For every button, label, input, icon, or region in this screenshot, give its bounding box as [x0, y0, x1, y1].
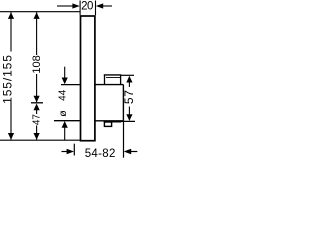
- node dia44 top extension tick: [61, 84, 80, 86]
- node extension line right of 20: [95, 1, 97, 16]
- button tab below handle: [104, 122, 111, 126]
- svg-text:54-82: 54-82: [85, 148, 116, 160]
- svg-text:ø: ø: [57, 110, 69, 117]
- handle disc right edge (visible band): [120, 75, 122, 85]
- dimension 155/155 line: [8, 12, 14, 140]
- dimension 57 line: [126, 76, 132, 121]
- svg-text:47: 47: [32, 114, 43, 126]
- dimension 47 line: [34, 104, 40, 140]
- svg-text:20: 20: [81, 1, 93, 13]
- node extension line left of 20: [79, 1, 81, 16]
- handle disc top edge: [104, 74, 122, 76]
- handle cylinder bottom edge: [96, 120, 124, 122]
- handle disc bottom edge: [104, 121, 122, 123]
- node 54-82 right extension line: [123, 122, 125, 158]
- handle cylinder top edge: [96, 84, 124, 86]
- svg-text:108: 108: [31, 55, 43, 73]
- handle disc left edge (visible band): [104, 75, 106, 85]
- dimension 54-82 right arrow: [124, 149, 138, 155]
- node 57 bottom extension line: [117, 120, 135, 122]
- node 57 top extension line: [121, 74, 134, 76]
- wire top reference line: [0, 11, 80, 13]
- node centerline tick: [31, 102, 43, 104]
- dimension dia44 line: [62, 67, 68, 141]
- node dia44 bottom extension tick: [54, 120, 80, 122]
- handle chamfer line: [106, 77, 121, 79]
- dimension 20 right arrow: [96, 3, 112, 8]
- dimension 20 left arrow: [57, 3, 80, 8]
- svg-text:44: 44: [58, 89, 69, 101]
- handle front face: [122, 85, 124, 121]
- dimension 108 line: [34, 12, 40, 102]
- dimension 54-82 left arrow: [62, 149, 75, 155]
- svg-text:155/155: 155/155: [1, 54, 15, 104]
- node 54-82 left extension line: [73, 144, 75, 156]
- plate (escutcheon side view): [81, 16, 95, 141]
- svg-text:57: 57: [122, 90, 136, 105]
- wire bottom reference baseline: [0, 139, 80, 141]
